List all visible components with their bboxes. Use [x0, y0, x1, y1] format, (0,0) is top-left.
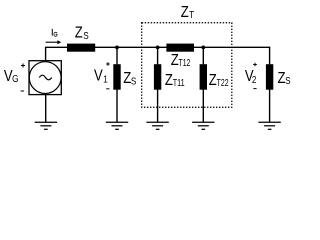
svg-text:V: V	[94, 67, 103, 84]
node ZT11 junction dot	[156, 45, 160, 49]
shunt impedance ZT11 bar	[154, 64, 161, 90]
minus VG	[21, 90, 24, 92]
dashed box Z_T network	[142, 23, 232, 108]
svg-text:Z: Z	[171, 52, 179, 69]
sine symbol	[39, 75, 51, 80]
svg-text:G: G	[53, 31, 57, 39]
label ZS shunt V2	[278, 70, 291, 87]
node V1 junction dot	[115, 45, 119, 49]
svg-text:T12: T12	[178, 57, 190, 68]
ground source	[35, 122, 57, 129]
voltage source VG box	[29, 61, 61, 95]
wire ZT22 branch upper	[202, 47, 204, 64]
ground V2	[258, 122, 280, 129]
node ZT22 junction dot	[201, 45, 205, 49]
label VG	[4, 68, 19, 85]
minus V2	[253, 88, 256, 90]
wire source top vertical	[45, 47, 47, 62]
shunt impedance ZS at V1 (bar)	[113, 64, 120, 90]
label ZT22	[209, 72, 229, 89]
label V2	[245, 68, 257, 86]
shunt impedance ZT22 bar	[200, 64, 207, 90]
wire V2 branch lower	[269, 90, 271, 123]
svg-text:2: 2	[252, 74, 257, 85]
label ZT11	[165, 72, 185, 89]
wire ZT22 branch lower	[202, 90, 204, 123]
plus VG	[21, 64, 25, 68]
svg-text:G: G	[12, 73, 18, 84]
minus V1	[106, 88, 109, 90]
current arrow IG	[46, 40, 62, 44]
label ZT	[181, 4, 195, 21]
svg-text:S: S	[285, 75, 290, 86]
label ZS shunt V1	[123, 70, 136, 87]
wire ZT11 branch lower	[157, 90, 159, 123]
svg-text:Z: Z	[181, 4, 189, 21]
svg-text:T11: T11	[173, 77, 185, 88]
wire source bottom vertical	[45, 94, 47, 122]
svg-text:Z: Z	[209, 72, 217, 89]
wire V1 branch lower	[116, 90, 118, 123]
label V1	[94, 67, 108, 85]
ground ZT22	[192, 122, 214, 129]
wire main horizontal	[46, 46, 270, 48]
ground V1	[106, 122, 128, 129]
label IG	[51, 28, 58, 39]
wire V2 vertical from main	[269, 47, 271, 65]
svg-text:S: S	[83, 30, 88, 41]
svg-text:1: 1	[103, 74, 108, 85]
svg-text:T22: T22	[217, 77, 229, 88]
svg-text:Z: Z	[75, 25, 83, 42]
series impedance ZS bar	[67, 44, 95, 52]
shunt impedance ZS at V2 (bar)	[266, 64, 273, 90]
ground ZT11	[146, 122, 168, 129]
svg-text:T: T	[189, 9, 194, 20]
series impedance ZT12 bar	[166, 44, 194, 52]
wire V1 branch upper	[116, 47, 118, 64]
svg-text:S: S	[131, 76, 136, 87]
plus V1	[106, 62, 110, 66]
plus V2	[253, 63, 257, 67]
label ZS series	[75, 25, 89, 42]
wire ZT11 branch upper	[157, 47, 159, 64]
svg-text:Z: Z	[165, 72, 173, 89]
label ZT12	[171, 52, 191, 69]
voltage source VG circle	[29, 62, 61, 94]
